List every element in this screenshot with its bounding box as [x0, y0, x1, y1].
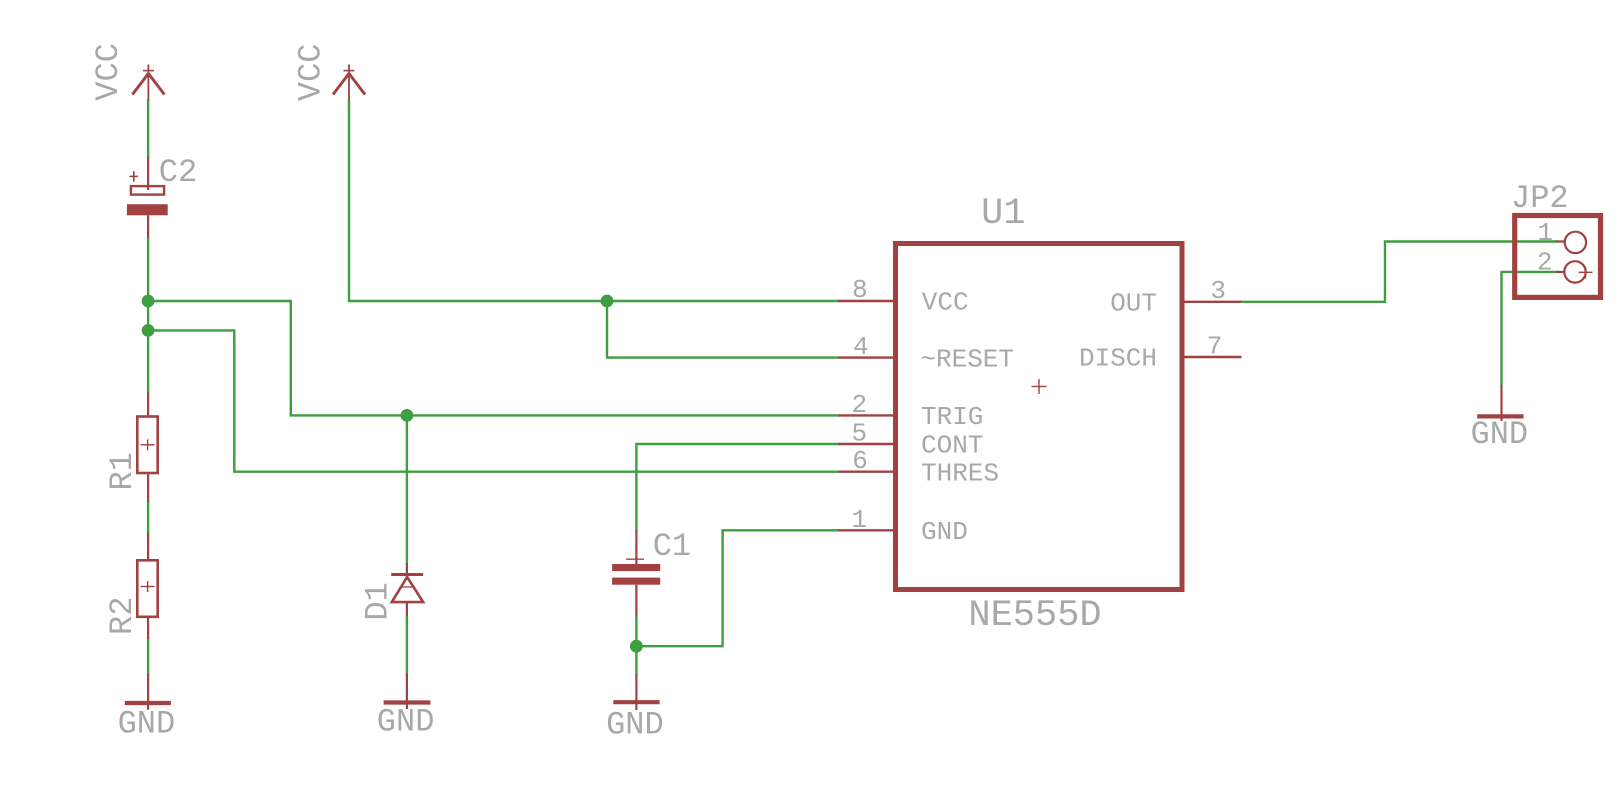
svg-text:R1: R1	[104, 452, 141, 490]
svg-text:4: 4	[853, 332, 869, 362]
svg-text:VCC: VCC	[922, 288, 969, 318]
svg-text:DISCH: DISCH	[1079, 344, 1157, 374]
svg-text:2: 2	[1537, 248, 1553, 278]
svg-text:U1: U1	[981, 193, 1025, 235]
svg-text:GND: GND	[1471, 416, 1529, 453]
svg-text:8: 8	[852, 275, 868, 305]
svg-text:R2: R2	[104, 597, 141, 635]
svg-text:OUT: OUT	[1110, 289, 1157, 319]
svg-text:3: 3	[1210, 276, 1226, 306]
svg-text:C1: C1	[653, 528, 691, 565]
svg-text:1: 1	[852, 505, 868, 535]
svg-text:THRES: THRES	[921, 458, 999, 488]
svg-text:D1: D1	[359, 582, 396, 620]
svg-text:TRIG: TRIG	[921, 402, 983, 432]
svg-text:GND: GND	[606, 706, 664, 743]
svg-text:5: 5	[852, 419, 868, 449]
svg-text:GND: GND	[118, 705, 176, 742]
svg-text:7: 7	[1207, 332, 1223, 362]
svg-text:VCC: VCC	[90, 43, 127, 101]
svg-text:NE555D: NE555D	[968, 595, 1101, 637]
svg-text:6: 6	[852, 446, 868, 476]
svg-text:C2: C2	[159, 154, 197, 191]
svg-text:CONT: CONT	[921, 431, 983, 461]
svg-text:VCC: VCC	[293, 43, 330, 101]
svg-text:JP2: JP2	[1511, 180, 1569, 217]
svg-text:~RESET: ~RESET	[920, 344, 1014, 374]
svg-text:2: 2	[852, 390, 868, 420]
svg-text:GND: GND	[921, 517, 968, 547]
svg-text:GND: GND	[377, 703, 435, 740]
svg-text:1: 1	[1537, 218, 1553, 248]
